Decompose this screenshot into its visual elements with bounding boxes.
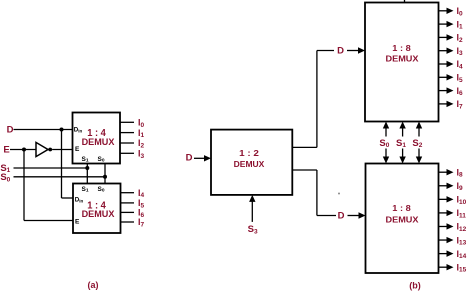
svg-text:I12: I12 xyxy=(457,222,467,233)
svg-text:I11: I11 xyxy=(457,208,467,219)
svg-text:Din: Din xyxy=(75,197,84,204)
svg-text:I0: I0 xyxy=(457,6,464,17)
svg-text:Din: Din xyxy=(74,127,83,134)
svg-text:S0: S0 xyxy=(379,138,389,149)
svg-text:S1: S1 xyxy=(396,138,406,149)
svg-text:I2: I2 xyxy=(457,33,464,44)
svg-text:E: E xyxy=(3,145,9,156)
svg-text:I13: I13 xyxy=(457,235,467,246)
svg-text:I7: I7 xyxy=(457,99,464,110)
svg-text:I14: I14 xyxy=(457,249,467,260)
svg-text:1 : 8: 1 : 8 xyxy=(392,44,411,53)
svg-text:I1: I1 xyxy=(457,19,464,30)
svg-text:E: E xyxy=(75,219,80,226)
svg-text:1 : 2: 1 : 2 xyxy=(239,148,259,158)
svg-text:DEMUX: DEMUX xyxy=(82,137,116,147)
svg-text:I4: I4 xyxy=(457,59,464,70)
svg-text:D: D xyxy=(7,125,14,136)
svg-text:E: E xyxy=(75,146,80,153)
svg-text:(b): (b) xyxy=(409,280,421,290)
svg-text:I5: I5 xyxy=(457,73,464,84)
svg-text:I3: I3 xyxy=(138,149,145,160)
svg-text:1 : 8: 1 : 8 xyxy=(392,204,411,213)
svg-text:S2: S2 xyxy=(412,138,422,149)
svg-text:D: D xyxy=(337,46,344,57)
svg-text:DEMUX: DEMUX xyxy=(386,53,419,63)
svg-text:D: D xyxy=(186,153,193,164)
svg-text:I8: I8 xyxy=(457,167,464,178)
svg-text:DEMUX: DEMUX xyxy=(234,159,265,169)
svg-text:I3: I3 xyxy=(457,46,464,57)
svg-text:I15: I15 xyxy=(457,262,467,273)
svg-text:I7: I7 xyxy=(138,217,145,228)
svg-text:I6: I6 xyxy=(457,86,464,97)
svg-text:S3: S3 xyxy=(248,224,258,235)
svg-text:D: D xyxy=(338,211,345,222)
svg-text:DEMUX: DEMUX xyxy=(386,214,419,224)
svg-text:I9: I9 xyxy=(457,181,464,192)
svg-text:DEMUX: DEMUX xyxy=(82,209,116,219)
svg-text:I10: I10 xyxy=(457,195,467,206)
svg-text:(a): (a) xyxy=(88,280,99,290)
